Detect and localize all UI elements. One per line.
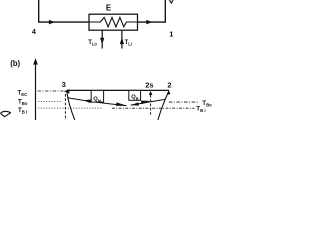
arrowhead at state 3 [64, 89, 70, 93]
svg-text:2: 2 [167, 81, 171, 90]
heat arrow Q_B right head [141, 101, 150, 105]
dashed guide below 3 [64, 94, 66, 120]
condensing line 3 to 2 [67, 89, 169, 91]
temperature axis [35, 62, 37, 120]
wire from E to node 1 corner and up [138, 0, 166, 22]
heat arrow Q_M right head [116, 102, 127, 106]
zigzag resistor symbol inside E [89, 17, 138, 26]
compression line up to 2 [158, 91, 169, 120]
svg-text:2s: 2s [145, 81, 153, 90]
dash-dot level T_Bi full span [38, 107, 103, 109]
svg-text:QB: QB [131, 95, 139, 101]
svg-text:(b): (b) [10, 59, 20, 68]
svg-text:E: E [106, 4, 112, 13]
svg-text:3: 3 [62, 80, 66, 89]
arrowhead at state 2 [167, 90, 171, 95]
T_Lo outlet arrow (down) [101, 30, 103, 48]
heat arrow Q_M shaft [67, 98, 126, 106]
box Q_B [129, 90, 141, 100]
isentropic guide 2s [150, 95, 152, 116]
dash-dot level T_EC [38, 90, 64, 92]
box Q_M [91, 90, 103, 102]
expansion line from 3 down [67, 92, 75, 121]
lens mark bottom left [1, 111, 11, 113]
axis arrowhead [33, 58, 38, 65]
svg-text:1: 1 [169, 30, 173, 39]
heat arrow Q_M left head [84, 100, 91, 104]
svg-text:QM: QM [93, 97, 102, 103]
dash-dot level T_Bo right [169, 101, 200, 103]
svg-text:TLi: TLi [125, 40, 132, 47]
wire from top into node 4 corner [39, 0, 89, 22]
arrowhead on wire 4->E [49, 20, 55, 25]
svg-text:TLo: TLo [88, 40, 97, 47]
heat arrow Q_B left head [131, 102, 139, 105]
heat exchanger E box [89, 14, 138, 30]
dash-dot level T_Bo left [38, 101, 62, 103]
heat arrow Q_B shaft [131, 99, 165, 105]
arrowhead cut at top edge (line to compressor) [169, 0, 173, 3]
arrowhead on wire E->1 [146, 20, 152, 25]
T_Li inlet arrow (up) [121, 30, 123, 48]
